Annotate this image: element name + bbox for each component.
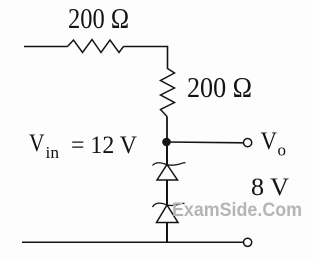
svg-text:V: V — [29, 130, 45, 157]
resistor R-shunt 200 ohm (vertical zigzag) — [161, 69, 175, 117]
node junction dot — [162, 138, 171, 147]
zener diode D1 cathode bar — [153, 163, 186, 166]
svg-text:200 Ω: 200 Ω — [187, 73, 252, 104]
zener diode D1 triangle — [157, 165, 178, 181]
svg-text:200 Ω: 200 Ω — [68, 4, 129, 35]
wire D2 to bottom rail — [166, 223, 168, 243]
svg-text:= 12 V: = 12 V — [71, 132, 137, 159]
wire node to zener D1 — [166, 142, 168, 164]
terminal bottom (open circle) — [244, 238, 252, 246]
wire node to output terminal — [167, 141, 244, 144]
svg-text:in: in — [46, 143, 60, 162]
svg-text:V: V — [261, 128, 278, 155]
terminal Vo (open circle) — [244, 139, 252, 147]
wire resistor to node — [166, 117, 168, 143]
svg-text:8 V: 8 V — [251, 174, 289, 201]
resistor R-series 200 ohm (horizontal zigzag) — [68, 40, 124, 53]
zener diode D2 cathode bar — [153, 203, 185, 207]
svg-text:ExamSide.Com: ExamSide.Com — [172, 200, 302, 221]
bottom rail wire — [22, 241, 244, 243]
wire top-left input — [24, 46, 68, 48]
svg-text:o: o — [278, 141, 287, 160]
wire D1 to D2 — [166, 180, 168, 205]
wire top-right with corner down — [124, 47, 168, 70]
zener diode D2 triangle — [157, 205, 179, 223]
